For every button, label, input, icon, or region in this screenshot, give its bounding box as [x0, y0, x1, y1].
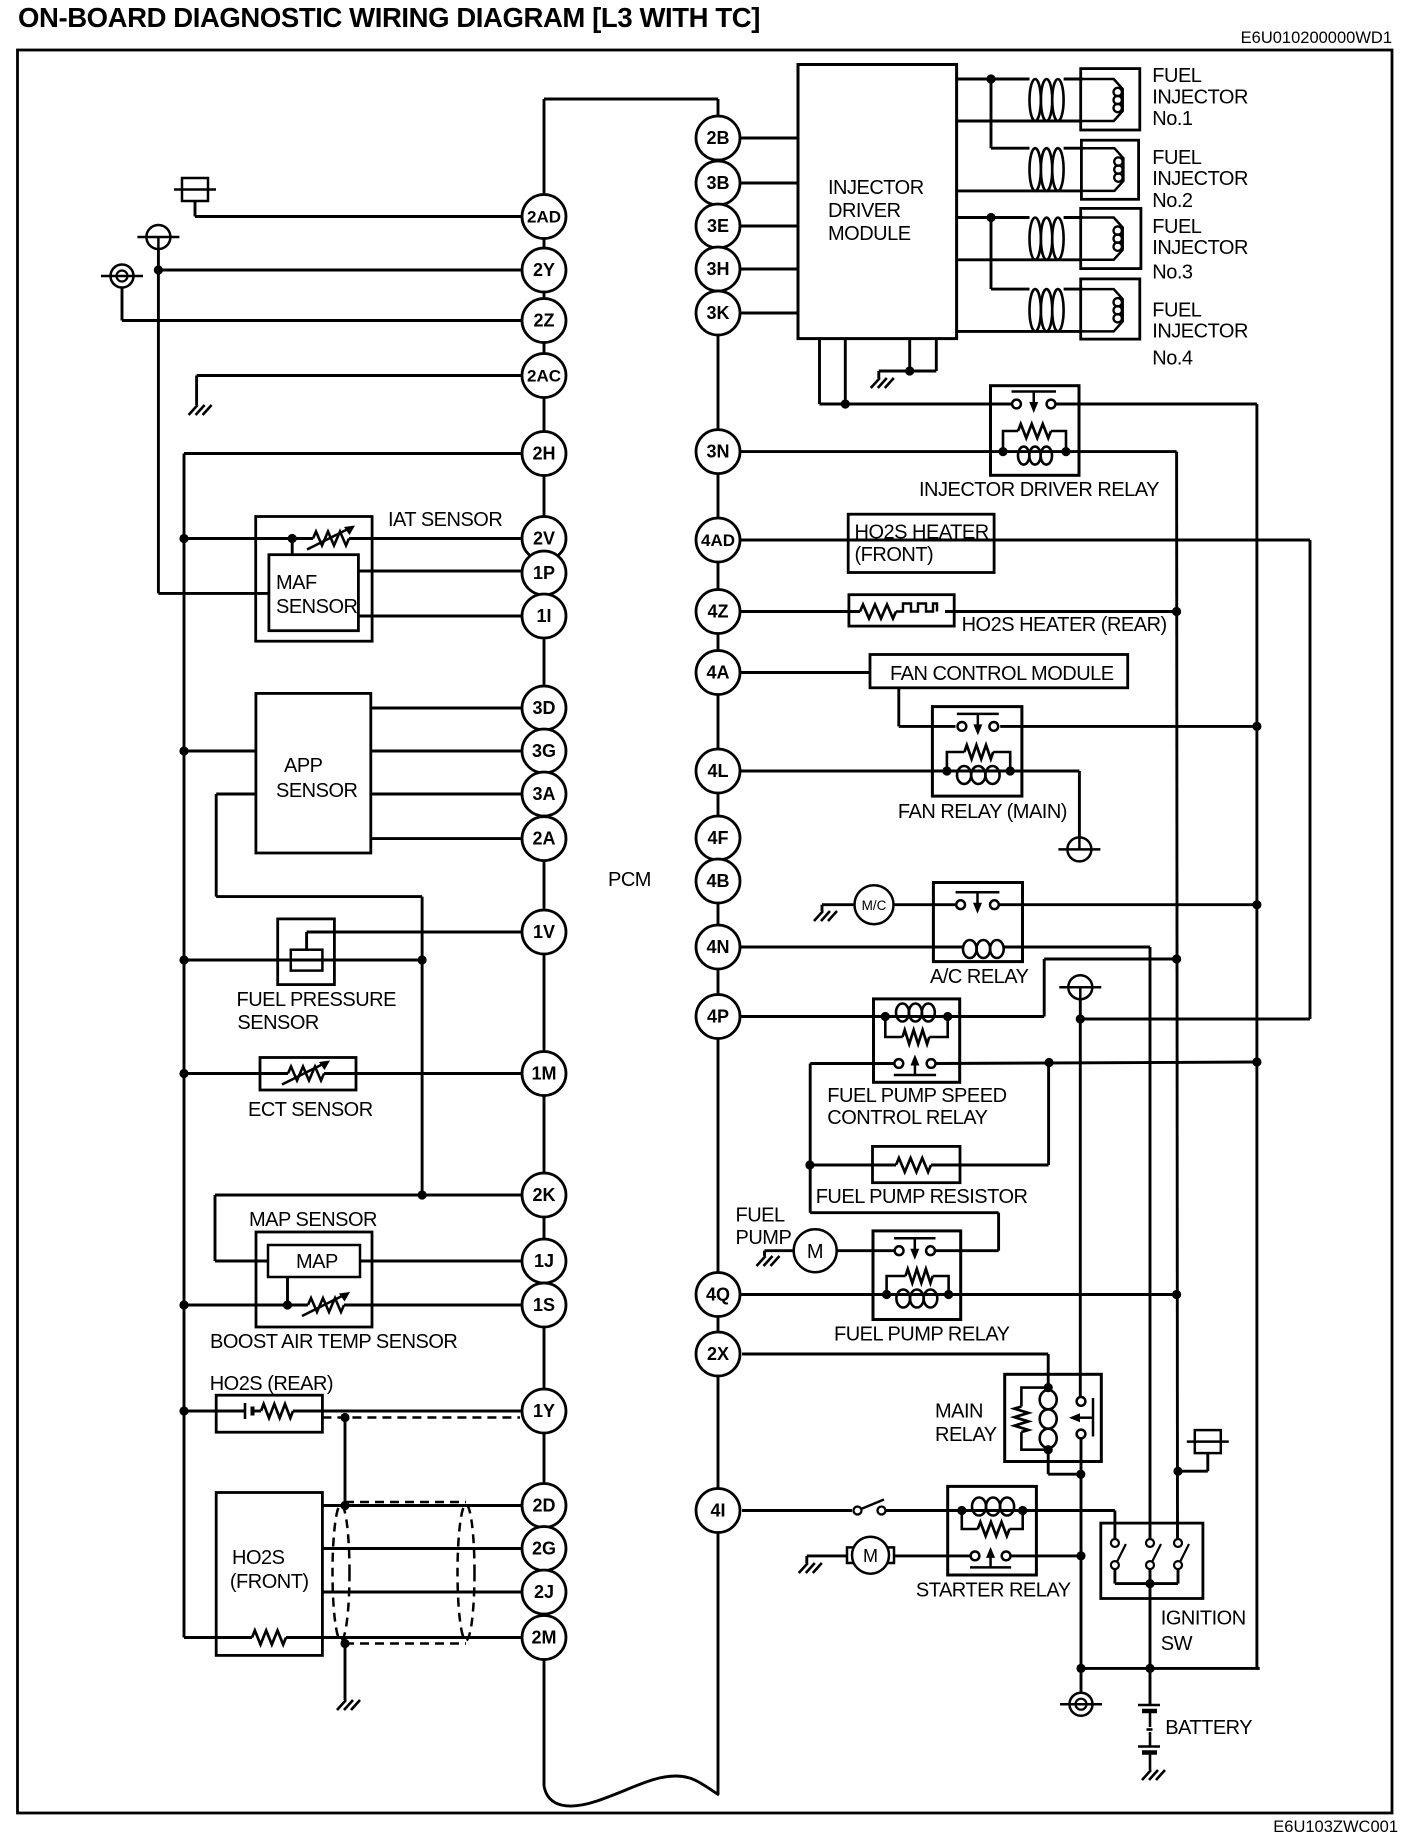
wire module ground link	[879, 370, 937, 373]
wire injector 2 drive into box	[1064, 147, 1084, 150]
junction main coil bottom	[1044, 1445, 1053, 1454]
wire 4AD row	[740, 539, 1310, 542]
svg-text:4L: 4L	[707, 761, 728, 781]
fuel injector No.1 box	[1081, 69, 1140, 130]
PCM pin 2B	[696, 116, 740, 160]
HO2S front box	[216, 1493, 322, 1656]
fan relay (main) box	[932, 707, 1022, 797]
fusible link (top left)	[174, 178, 216, 201]
wire battery top lead	[1149, 1668, 1152, 1705]
wire to pin 3D	[371, 707, 522, 710]
wire 4AD feed across	[1080, 1018, 1310, 1021]
svg-text:1V: 1V	[533, 922, 555, 942]
svg-text:1Y: 1Y	[533, 1401, 555, 1421]
ignition switch pole 2	[1146, 1539, 1161, 1569]
FP relay resistor bracket	[887, 1276, 949, 1295]
wire FPSC feed up	[1043, 959, 1046, 1017]
wire fan coil feed down	[1078, 771, 1081, 837]
svg-text:SW: SW	[1161, 1633, 1193, 1655]
svg-text:2V: 2V	[533, 529, 555, 549]
PCM pin 4Q	[696, 1273, 740, 1317]
PCM pin 2AC	[522, 354, 566, 398]
A/C relay box	[933, 883, 1022, 962]
main relay contact	[1069, 1397, 1093, 1438]
wire FPS row	[184, 959, 422, 962]
PCM pin 3H	[696, 247, 740, 291]
ignition switch pole 1	[1111, 1539, 1126, 1569]
wire feed down to 2Y node	[157, 249, 160, 270]
svg-text:1P: 1P	[533, 563, 555, 583]
svg-text:4Z: 4Z	[707, 602, 728, 622]
wire to pin 1S (left)	[184, 1304, 308, 1307]
junction module feed	[841, 399, 850, 408]
junction FP coil right	[944, 1290, 953, 1299]
wire pin 3B to module	[740, 182, 798, 185]
wire APP 3A left	[216, 793, 256, 796]
svg-text:3A: 3A	[532, 784, 555, 804]
svg-text:1I: 1I	[536, 606, 551, 626]
fan relay coil	[957, 766, 1000, 784]
fuel injector No.3 plug outline	[1081, 218, 1123, 260]
PCM pin 1Y	[522, 1389, 566, 1433]
HO2S heater rear resistor	[860, 605, 896, 619]
wire 4AD out column (x1310)	[1309, 540, 1312, 1019]
HO2S rear box	[216, 1395, 322, 1432]
ignition switch pole 3	[1174, 1539, 1189, 1569]
svg-text:2AC: 2AC	[527, 367, 561, 386]
wire injector 1 drive (top)	[957, 78, 1030, 81]
wire relay coil row	[1003, 450, 1066, 453]
wire pin 3K to module	[740, 312, 798, 315]
wire FP resistor up column	[1047, 1063, 1050, 1166]
svg-text:4AD: 4AD	[701, 531, 735, 550]
wire ignition pin1 feed	[1113, 1511, 1116, 1540]
svg-text:No.1: No.1	[1152, 108, 1193, 130]
svg-text:2A: 2A	[532, 829, 555, 849]
wire relay coil out	[1066, 450, 1177, 453]
svg-text:2D: 2D	[532, 1496, 555, 1516]
PCM pin 4A	[696, 651, 740, 695]
PCM pin 2Z	[522, 299, 566, 343]
body ground (2Z)	[101, 265, 143, 288]
HO2S heater front box	[848, 514, 994, 572]
svg-text:M: M	[863, 1546, 878, 1566]
fan control module box	[870, 655, 1128, 688]
wire ignition bus	[1115, 1582, 1178, 1585]
HO2S heater rear box	[849, 595, 954, 626]
battery feed B+ (2Y)	[137, 225, 179, 249]
wire FPSC contact right	[936, 1062, 1257, 1064]
wire fan module stub	[897, 688, 900, 727]
injector driver relay resistor bracket	[1003, 431, 1066, 452]
svg-text:4A: 4A	[706, 663, 729, 683]
svg-text:E6U103ZWC001: E6U103ZWC001	[1273, 1818, 1398, 1836]
wire FP relay contact feed down	[997, 1213, 1000, 1251]
main relay resistor bracket	[1021, 1388, 1048, 1450]
svg-text:SENSOR: SENSOR	[237, 1012, 319, 1034]
HO2S heater rear pulse element	[896, 604, 937, 612]
MAP sensor inner box	[268, 1245, 360, 1277]
wire injector 1 return (bottom)	[957, 120, 1081, 123]
wire shield dashed (1Y)	[322, 1416, 520, 1419]
wire to pin 1V	[307, 931, 522, 934]
PCM pin 2D	[522, 1484, 566, 1528]
wire to pin 1P	[358, 570, 522, 573]
wire HO2S heater left	[184, 1636, 252, 1639]
svg-text:3B: 3B	[706, 173, 729, 193]
svg-text:PCM: PCM	[608, 869, 651, 891]
junction starter contact/column	[1076, 1551, 1085, 1560]
junction fan coil left	[942, 766, 951, 775]
svg-text:No.2: No.2	[1152, 190, 1193, 212]
wire 4I row to switch	[742, 1509, 852, 1512]
svg-text:MAP SENSOR: MAP SENSOR	[249, 1209, 377, 1231]
svg-text:DRIVER: DRIVER	[828, 200, 901, 222]
injector driver relay resistor	[1018, 424, 1051, 438]
svg-text:A/C RELAY: A/C RELAY	[930, 966, 1029, 988]
junction module ground	[905, 366, 914, 375]
wire ignition pole 2 lower stub	[1149, 1569, 1152, 1584]
svg-text:MAF: MAF	[276, 572, 317, 594]
wire column ACC (x1257)	[1255, 404, 1258, 1668]
junction fuse/column	[1173, 1467, 1182, 1476]
svg-text:MAIN: MAIN	[935, 1401, 983, 1423]
wire injector 4 drive (top)	[991, 288, 1030, 291]
junction main coil top	[1044, 1383, 1053, 1392]
junction FPSC contact/resistor column	[1045, 1058, 1054, 1067]
junction bus/1S	[179, 1300, 188, 1309]
wire fuse lead	[194, 201, 197, 217]
svg-text:4B: 4B	[706, 871, 729, 891]
svg-text:HO2S (REAR): HO2S (REAR)	[210, 1373, 333, 1395]
junction feed/main relay column	[1076, 1014, 1085, 1023]
wire A/C coil to ignition column	[1149, 947, 1152, 1539]
wire to pin 1Y (right)	[293, 1410, 522, 1413]
svg-text:IAT SENSOR: IAT SENSOR	[388, 509, 502, 531]
wire to pin 2V (right)	[349, 537, 522, 540]
fuel pump resistor box	[873, 1146, 961, 1182]
wire pin 2B to module	[740, 137, 798, 140]
fan relay resistor bracket	[947, 752, 1010, 771]
svg-text:FUEL: FUEL	[1152, 147, 1202, 169]
PCM pin 1I	[522, 594, 566, 638]
FP relay resistor	[906, 1269, 933, 1283]
svg-text:STARTER RELAY: STARTER RELAY	[916, 1580, 1071, 1602]
injector driver relay contact	[1012, 392, 1057, 414]
wire module ground b	[935, 339, 938, 371]
fuel injector No.3 coil detail	[1114, 226, 1122, 250]
PCM pin 2J	[522, 1570, 566, 1614]
fuel injector No.4 coil detail	[1114, 298, 1122, 322]
wire to pin 1I	[358, 615, 522, 618]
svg-text:FUEL: FUEL	[736, 1205, 786, 1227]
svg-text:BATTERY: BATTERY	[1165, 1717, 1252, 1739]
svg-text:SENSOR: SENSOR	[276, 596, 358, 618]
svg-text:2K: 2K	[532, 1185, 555, 1205]
main relay box	[1005, 1374, 1102, 1461]
MAF sensor inner box	[269, 555, 359, 631]
ground (M/C)	[814, 911, 837, 921]
svg-text:FAN CONTROL MODULE: FAN CONTROL MODULE	[890, 663, 1114, 685]
svg-text:3E: 3E	[707, 216, 729, 236]
wire FPSC left column	[809, 1064, 812, 1213]
wire to pin 2H	[184, 452, 522, 455]
svg-text:(FRONT): (FRONT)	[855, 544, 934, 566]
svg-text:2Y: 2Y	[533, 260, 555, 280]
wire injector 3-4 branch	[990, 218, 993, 290]
svg-text:4F: 4F	[707, 828, 728, 848]
svg-text:3D: 3D	[532, 698, 555, 718]
wire switch to relay	[886, 1509, 962, 1512]
fuel injector No.2 plug outline	[1081, 148, 1123, 191]
svg-text:APP: APP	[284, 755, 323, 777]
wire to pin 2M	[286, 1636, 523, 1639]
boost air temp thermistor element	[302, 1292, 350, 1316]
starter relay resistor	[978, 1522, 1010, 1536]
wire FPSC coil link	[885, 1015, 947, 1018]
PCM pin 4F	[696, 816, 740, 860]
junction supply/2K	[418, 1190, 427, 1199]
injector driver relay box	[991, 386, 1080, 476]
PCM pin 4I	[696, 1489, 740, 1533]
main relay coil	[1040, 1390, 1057, 1448]
svg-text:MODULE: MODULE	[828, 223, 911, 245]
junction FPSC/column	[1172, 954, 1181, 963]
MAF sensor outer box	[256, 517, 372, 642]
svg-text:1M: 1M	[531, 1064, 556, 1084]
svg-text:CONTROL RELAY: CONTROL RELAY	[827, 1107, 987, 1129]
wire sensor return bus	[183, 454, 186, 1638]
wire APP branch across	[216, 895, 422, 898]
junction A/C contact/column	[1252, 900, 1261, 909]
wire pump to contact	[837, 1249, 895, 1252]
svg-text:E6U010200000WD1: E6U010200000WD1	[1241, 29, 1392, 47]
svg-text:No.3: No.3	[1152, 262, 1193, 284]
wire from body ground down	[121, 288, 124, 321]
PCM pin 4Z	[696, 590, 740, 634]
wire fuel pump ground link	[765, 1249, 794, 1252]
wire motor to contact	[894, 1554, 971, 1557]
wire injector 2 drive (top)	[991, 147, 1030, 150]
svg-text:2H: 2H	[532, 444, 555, 464]
svg-text:INJECTOR: INJECTOR	[828, 177, 924, 199]
main relay resistor	[1014, 1407, 1028, 1433]
wire 2X down to coil	[1047, 1354, 1050, 1388]
wire starter contact out	[1011, 1554, 1082, 1557]
wire FPSC contact left	[810, 1062, 894, 1065]
junction bus/2V	[179, 534, 188, 543]
wire ignition bus down	[1149, 1584, 1152, 1669]
svg-text:SENSOR: SENSOR	[276, 780, 358, 802]
junction 4Q/column	[1172, 1290, 1181, 1299]
junction FPSC coil right	[943, 1012, 952, 1021]
svg-text:FUEL: FUEL	[1152, 300, 1202, 322]
wire MAP supply right	[215, 1260, 268, 1263]
svg-text:3G: 3G	[532, 741, 556, 761]
fuel pump relay coil	[896, 1290, 937, 1308]
wire MAP therm stub	[286, 1277, 289, 1305]
svg-text:INJECTOR: INJECTOR	[1152, 237, 1248, 259]
wire fan relay contact row	[899, 725, 956, 728]
wire fan relay contact out	[1000, 725, 1257, 728]
wire M/C ground lead	[821, 905, 824, 911]
PCM pin 2K	[522, 1173, 566, 1217]
wire to pin 2AD	[195, 215, 522, 218]
battery	[1138, 1705, 1160, 1770]
PCM pin 3K	[696, 291, 740, 335]
PCM pin 1V	[522, 910, 566, 954]
fuel pump motor	[794, 1229, 837, 1272]
svg-text:INJECTOR: INJECTOR	[1152, 87, 1248, 109]
svg-text:FUEL PUMP RELAY: FUEL PUMP RELAY	[834, 1324, 1010, 1346]
PCM pin 2H	[522, 432, 566, 476]
svg-text:4Q: 4Q	[706, 1285, 730, 1305]
PCM pin 2V	[522, 517, 566, 561]
fuel injector No.1 plug outline	[1081, 79, 1123, 121]
fuel pump relay box	[873, 1231, 961, 1320]
PCM pin 2A	[522, 817, 566, 861]
fuel injector No.1 coil detail	[1114, 88, 1122, 112]
PCM left column	[543, 99, 546, 1786]
APP sensor box	[256, 693, 371, 853]
wire FPSC to FP relay across	[810, 1211, 998, 1214]
svg-text:3N: 3N	[706, 442, 729, 462]
junction MAP/boost therm	[283, 1300, 292, 1309]
ground (2AC)	[189, 405, 212, 415]
A/C compressor magnetic clutch	[855, 885, 894, 924]
fuel pump resistor element	[896, 1158, 931, 1172]
PCM pin 3D	[522, 686, 566, 730]
PCM pin 4AD	[696, 518, 740, 562]
junction bus/ECT	[179, 1069, 188, 1078]
wire 2X row	[742, 1353, 1048, 1356]
wire 4Z row (left)	[740, 610, 860, 613]
wire pin 3H to module	[740, 268, 798, 271]
fan relay contact	[957, 714, 999, 736]
PCM pin 2Y	[522, 248, 566, 292]
PCM pin 2AD	[522, 195, 566, 239]
wire to pin 1M (right)	[324, 1072, 522, 1075]
svg-text:PUMP: PUMP	[736, 1227, 792, 1249]
wire main relay feed column	[1079, 1019, 1082, 1397]
PCM pin 1J	[522, 1239, 566, 1283]
fuel pressure sensor inner box	[291, 950, 323, 971]
ground (starter)	[799, 1563, 822, 1573]
wire A/C coil out	[1004, 946, 1150, 949]
svg-text:4I: 4I	[710, 1501, 725, 1521]
wire FPS signal stub	[305, 932, 308, 950]
svg-text:FAN RELAY (MAIN): FAN RELAY (MAIN)	[898, 801, 1067, 823]
PCM pin 1S	[522, 1283, 566, 1327]
wire body ground lead	[1080, 1668, 1083, 1692]
PCM pin 1M	[522, 1052, 566, 1096]
FPSC resistor	[903, 1030, 930, 1044]
wire MAF supply	[158, 592, 269, 595]
wire module ground lead	[877, 371, 880, 378]
shield (dashed)	[333, 1502, 475, 1644]
body ground (battery)	[1060, 1693, 1102, 1716]
svg-text:INJECTOR: INJECTOR	[1152, 168, 1248, 190]
injector 1 harness coil	[1030, 79, 1064, 121]
wire injector 4 drive into box	[1064, 288, 1083, 291]
junction bottom bus/battery	[1145, 1664, 1154, 1673]
FPSC resistor bracket	[885, 1017, 947, 1038]
svg-text:1J: 1J	[534, 1251, 554, 1271]
wire injector 3 return (bottom)	[957, 258, 1081, 261]
svg-text:MAP: MAP	[296, 1251, 338, 1273]
starter relay contact	[970, 1547, 1011, 1569]
PCM pin 3G	[522, 729, 566, 773]
svg-text:HO2S: HO2S	[232, 1547, 285, 1569]
svg-text:2AD: 2AD	[527, 208, 561, 227]
wire column IG1 (x1177)	[1175, 452, 1179, 1539]
junction injector 1 branch	[986, 74, 995, 83]
junction bus/3G	[179, 746, 188, 755]
svg-text:INJECTOR DRIVER RELAY: INJECTOR DRIVER RELAY	[919, 479, 1159, 501]
starter motor	[847, 1537, 894, 1574]
svg-text:2G: 2G	[532, 1539, 556, 1559]
svg-text:FUEL PUMP RESISTOR: FUEL PUMP RESISTOR	[816, 1186, 1028, 1208]
svg-text:2J: 2J	[534, 1582, 554, 1602]
PCM pin 3B	[696, 161, 740, 205]
wire module feed down b	[844, 339, 847, 404]
junction FPSC coil left	[881, 1012, 890, 1021]
wire MAF inner box stub	[291, 539, 294, 555]
wire FPSC feed right	[1044, 958, 1176, 961]
fusible link (starter)	[1187, 1430, 1229, 1453]
ignition switch box	[1101, 1523, 1203, 1598]
wire to pin 1J	[360, 1260, 522, 1263]
svg-text:FUEL PUMP SPEED: FUEL PUMP SPEED	[827, 1085, 1006, 1107]
wire APP branch down	[215, 794, 218, 897]
injector 3 harness coil	[1030, 218, 1064, 260]
PCM pin 3E	[696, 204, 740, 248]
wire FP coil link	[887, 1293, 949, 1296]
wire fuse lead down	[1206, 1453, 1209, 1471]
wire 4P row	[740, 1015, 885, 1018]
svg-text:ON-BOARD DIAGNOSTIC WIRING DIA: ON-BOARD DIAGNOSTIC WIRING DIAGRAM [L3 W…	[18, 2, 760, 33]
wire to pin 1S (right)	[344, 1304, 522, 1307]
wire starter coil link	[962, 1509, 1023, 1512]
HO2S rear cell element	[245, 1403, 253, 1419]
HO2S rear resistor element	[261, 1404, 293, 1418]
fuel pump speed control relay coil	[896, 1004, 935, 1022]
junction FP coil left	[882, 1290, 891, 1299]
fuel pump relay contact	[894, 1238, 935, 1260]
svg-text:4N: 4N	[706, 937, 729, 957]
junction 2Y feed	[154, 265, 163, 274]
wire module feed down a	[818, 339, 821, 404]
wire M/C to contact	[894, 903, 956, 906]
wire shield drop	[344, 1418, 347, 1506]
junction fan coil right	[1006, 766, 1015, 775]
wire relay contact out	[1056, 403, 1257, 406]
junction shield/2D	[340, 1501, 349, 1510]
wire injector 1-2 branch	[990, 79, 993, 148]
wire 4L row	[740, 770, 947, 773]
PCM pin 2X	[696, 1332, 740, 1376]
wire ignition pole 1 lower stub	[1113, 1569, 1116, 1584]
junction bus/FPS	[179, 955, 188, 964]
svg-text:BOOST AIR TEMP SENSOR: BOOST AIR TEMP SENSOR	[210, 1331, 457, 1353]
svg-text:HO2S HEATER (REAR): HO2S HEATER (REAR)	[962, 614, 1167, 636]
junction shield/ground	[340, 1639, 349, 1648]
junction bus/1Y	[179, 1406, 188, 1415]
svg-text:2X: 2X	[707, 1344, 729, 1364]
junction main coil/column	[1076, 1470, 1085, 1479]
fuel injector No.4 plug outline	[1081, 289, 1123, 331]
svg-text:FUEL PRESSURE: FUEL PRESSURE	[237, 989, 397, 1011]
